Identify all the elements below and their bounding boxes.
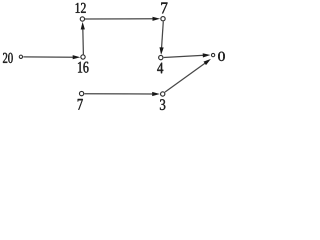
- node 7 top: [161, 17, 165, 21]
- node 20: [19, 55, 22, 58]
- label 20: [3, 53, 13, 63]
- label 16: [78, 62, 89, 73]
- edge 12 to 7: [85, 17, 160, 21]
- node 12: [80, 17, 84, 21]
- label 0: [218, 52, 225, 61]
- edge 7 to 3: [84, 92, 159, 96]
- label 7: [78, 99, 83, 110]
- label 4: [157, 63, 163, 73]
- node 0: [211, 53, 214, 56]
- label 12: [76, 3, 86, 13]
- node 7 bottom: [79, 91, 83, 95]
- edge 4 to 0: [164, 53, 211, 57]
- node 16: [81, 55, 85, 59]
- edge 16 to 12: [81, 22, 85, 55]
- node 4: [159, 55, 163, 59]
- label 7: [161, 3, 167, 14]
- node 3: [161, 92, 165, 96]
- edge 20 to 16: [23, 55, 80, 59]
- edge 7 to 4: [160, 21, 164, 55]
- edge 3 to 0: [165, 59, 211, 92]
- label 3: [160, 99, 165, 110]
